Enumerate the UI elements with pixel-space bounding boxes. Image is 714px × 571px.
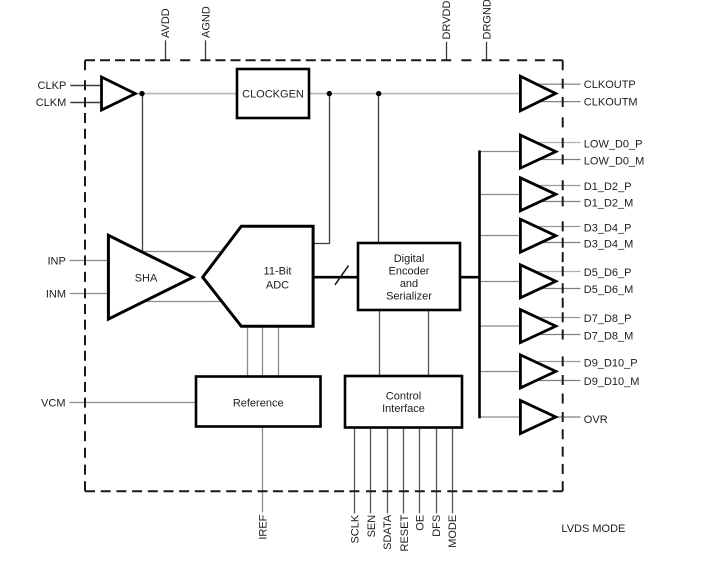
svg-text:D5_D6_P: D5_D6_P xyxy=(584,267,632,279)
svg-text:MODE: MODE xyxy=(447,515,459,548)
svg-text:IREF: IREF xyxy=(258,514,270,539)
svg-text:DFS: DFS xyxy=(431,515,443,537)
svg-text:Encoder: Encoder xyxy=(389,266,430,278)
svg-text:VCM: VCM xyxy=(41,398,65,410)
svg-text:LVDS MODE: LVDS MODE xyxy=(561,523,625,535)
svg-text:RESET: RESET xyxy=(399,515,411,552)
svg-text:D7_D8_M: D7_D8_M xyxy=(584,330,634,342)
svg-text:Serializer: Serializer xyxy=(386,291,432,303)
svg-text:CLKOUTM: CLKOUTM xyxy=(584,97,638,109)
svg-text:D7_D8_P: D7_D8_P xyxy=(584,313,632,325)
svg-text:AVDD: AVDD xyxy=(160,8,172,38)
svg-text:INP: INP xyxy=(47,255,65,267)
svg-text:DRVDD: DRVDD xyxy=(441,1,453,40)
svg-text:and: and xyxy=(400,278,418,290)
svg-text:CLKOUTP: CLKOUTP xyxy=(584,79,636,91)
svg-text:SDATA: SDATA xyxy=(382,514,394,550)
svg-text:SCLK: SCLK xyxy=(349,514,361,543)
svg-text:SHA: SHA xyxy=(135,273,158,285)
svg-text:Control: Control xyxy=(386,391,421,403)
svg-text:D1_D2_M: D1_D2_M xyxy=(584,197,634,209)
svg-text:CLKM: CLKM xyxy=(36,97,67,109)
svg-text:D9_D10_P: D9_D10_P xyxy=(584,357,638,369)
svg-text:11-Bit: 11-Bit xyxy=(264,266,292,278)
svg-text:SEN: SEN xyxy=(366,515,378,538)
svg-text:D9_D10_M: D9_D10_M xyxy=(584,376,640,388)
svg-text:D1_D2_P: D1_D2_P xyxy=(584,181,632,193)
svg-text:LOW_D0_P: LOW_D0_P xyxy=(584,139,643,151)
svg-text:INM: INM xyxy=(46,288,66,300)
svg-text:ADC: ADC xyxy=(266,280,289,292)
svg-text:D5_D6_M: D5_D6_M xyxy=(584,284,634,296)
svg-text:DRGND: DRGND xyxy=(482,0,494,40)
svg-text:LOW_D0_M: LOW_D0_M xyxy=(584,155,645,167)
svg-text:CLKP: CLKP xyxy=(38,80,67,92)
svg-text:AGND: AGND xyxy=(200,6,212,38)
svg-text:CLOCKGEN: CLOCKGEN xyxy=(242,89,304,101)
svg-text:D3_D4_M: D3_D4_M xyxy=(584,239,634,251)
svg-text:OVR: OVR xyxy=(584,414,608,426)
svg-text:Interface: Interface xyxy=(382,403,425,415)
svg-text:Digital: Digital xyxy=(394,253,425,265)
svg-text:Reference: Reference xyxy=(233,398,284,410)
svg-text:OE: OE xyxy=(415,515,427,531)
svg-text:D3_D4_P: D3_D4_P xyxy=(584,222,632,234)
